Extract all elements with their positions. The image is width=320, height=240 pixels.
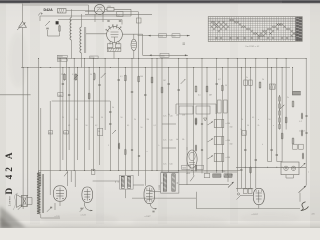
- wire: [52, 100, 111, 102]
- diode symbol: [204, 118, 207, 121]
- ground bus wire: [21, 67, 290, 69]
- resistor: [250, 168, 252, 173]
- wire: [240, 68, 242, 189]
- small labels mid-left: [48, 131, 53, 134]
- wire: [92, 59, 94, 171]
- wire: [124, 68, 126, 176]
- capacitor: [109, 111, 111, 113]
- wire: [39, 16, 41, 21]
- wire: [109, 101, 111, 170]
- resistor under tube: [107, 44, 113, 48]
- wire: [138, 59, 140, 177]
- resistor top right: [136, 18, 141, 23]
- resistor: [124, 75, 126, 80]
- svg-text:50: 50: [247, 125, 249, 127]
- AF choke coil 2: [224, 174, 232, 177]
- resistor: [161, 88, 163, 93]
- tube V3 internals: [86, 189, 88, 201]
- svg-text:Cm: Cm: [170, 164, 173, 166]
- wire: [240, 195, 253, 197]
- bottom bus wire: [39, 170, 241, 172]
- rectifier tube V7 envelope: [253, 188, 264, 204]
- svg-text:u 1W7: u 1W7: [145, 216, 152, 218]
- svg-text:Lm: Lm: [176, 115, 179, 117]
- resistor mid block 1: [195, 120, 197, 125]
- resistor: [59, 26, 61, 31]
- resistor: [64, 74, 66, 79]
- svg-text:L: L: [308, 172, 309, 174]
- svg-text:a: a: [147, 151, 148, 153]
- tube V1 grid electrodes: [106, 30, 109, 32]
- wire: [168, 68, 170, 173]
- resistor: [259, 82, 261, 87]
- wire: [216, 59, 218, 173]
- wire with arrow: [138, 35, 190, 37]
- wire: [27, 68, 29, 197]
- svg-text:15000: 15000: [58, 56, 63, 58]
- wire arc below tube V6: [150, 204, 157, 209]
- resistor: [195, 119, 197, 124]
- misc small labels: [61, 74, 289, 146]
- wire: [59, 59, 61, 171]
- wire: [186, 147, 188, 150]
- svg-text:150: 150: [230, 144, 233, 146]
- capacitor: [131, 91, 133, 93]
- wire stub: [70, 171, 72, 183]
- top feed wire: [23, 4, 89, 6]
- wire: [271, 68, 273, 162]
- paper streaks: [30, 4, 40, 224]
- svg-text:2k: 2k: [76, 119, 78, 121]
- output transformer coil: [37, 173, 41, 215]
- wire: [38, 171, 40, 173]
- wire: [124, 190, 126, 199]
- wire: [201, 59, 203, 174]
- wire: [236, 187, 253, 189]
- magic eye tube V5: [187, 150, 197, 168]
- wire: [176, 103, 216, 105]
- junction dots bottom bus: [60, 167, 283, 171]
- label box on wire: [160, 53, 169, 57]
- wire: [277, 161, 282, 163]
- svg-text:Ck: Ck: [182, 139, 184, 141]
- resistor on bus: [91, 169, 95, 174]
- wire: [71, 9, 73, 17]
- capacitor diagonal: [190, 176, 194, 182]
- svg-text:a: a: [258, 119, 259, 121]
- svg-text:u 124: u 124: [81, 215, 87, 217]
- wire: [22, 68, 24, 210]
- wire: [285, 59, 287, 130]
- wire: [227, 59, 229, 182]
- wire: [65, 59, 67, 171]
- label box on wire: [172, 34, 180, 38]
- svg-text:11500: 11500: [159, 185, 161, 190]
- capacitor: [216, 83, 218, 85]
- svg-text:50: 50: [269, 119, 271, 121]
- wire: [121, 20, 123, 25]
- grid wire: [85, 13, 152, 15]
- paper mottle: [42, 213, 118, 227]
- svg-text:1700: 1700: [58, 60, 62, 62]
- resistor diagonal: [280, 105, 284, 109]
- capacitor: [62, 83, 64, 85]
- variable capacitor arrow: [181, 79, 186, 84]
- resistor mid block 2: [195, 146, 197, 151]
- svg-text:0,1: 0,1: [154, 125, 156, 127]
- svg-text:Cm: Cm: [170, 116, 173, 118]
- resistor right column: [301, 131, 303, 135]
- svg-text:220: 220: [312, 214, 315, 216]
- capacitor: [131, 149, 133, 151]
- capacitor: [168, 83, 170, 85]
- capacitor right column: [305, 132, 307, 134]
- svg-text:Lm: Lm: [164, 116, 167, 118]
- oscillator coil L1: [70, 18, 72, 41]
- resistor box 2: [117, 12, 123, 17]
- coil hatch: [293, 91, 301, 95]
- svg-text:0,1: 0,1: [72, 74, 75, 76]
- output tube V4 envelope: [54, 186, 67, 201]
- svg-text:2k: 2k: [262, 79, 264, 81]
- svg-text:u 150: u 150: [226, 140, 231, 142]
- capacitor: [107, 20, 109, 22]
- oscillator chain resistors: [279, 97, 281, 101]
- bottom bus wire right: [236, 166, 306, 168]
- svg-text:150: 150: [230, 127, 233, 129]
- resistor right column: [302, 154, 304, 158]
- wire: [250, 68, 252, 189]
- svg-text:50: 50: [90, 74, 92, 76]
- svg-text:a: a: [273, 125, 274, 127]
- tube V7 internals: [258, 190, 260, 203]
- resistor under tube: [115, 44, 121, 48]
- wire: [133, 184, 144, 186]
- wire: [68, 68, 70, 151]
- speaker arrow: [18, 205, 23, 210]
- tiny rail labels: [62, 117, 274, 153]
- small selector symbol: [237, 193, 239, 195]
- wire: [244, 59, 246, 189]
- tube V6 internals: [148, 188, 150, 202]
- wire: [285, 175, 287, 178]
- wire: [59, 201, 61, 206]
- wire: [58, 19, 122, 21]
- wire: [267, 59, 269, 162]
- wire: [191, 168, 193, 171]
- capacitor: [244, 149, 246, 151]
- dial scale markings: [211, 19, 298, 39]
- capacitor: [119, 20, 121, 22]
- label box on bus: [57, 55, 67, 57]
- terminal boxes: [244, 80, 248, 85]
- svg-text:1500: 1500: [159, 36, 163, 38]
- wire: [73, 59, 75, 171]
- label box on bus: [90, 56, 98, 59]
- junction blob: [56, 21, 59, 24]
- L C labels column: [164, 116, 173, 166]
- wire: [88, 68, 90, 151]
- mixer tube V1 envelope: [107, 27, 123, 43]
- svg-text:5k: 5k: [112, 107, 114, 109]
- long return wire: [196, 208, 300, 210]
- capacitor: [98, 84, 100, 86]
- wire: [27, 197, 32, 199]
- bottom photo edge shading: [0, 221, 320, 228]
- capacitor right column: [305, 115, 307, 117]
- tall trimmer boxes: [218, 100, 222, 113]
- AF choke coil: [213, 174, 221, 177]
- wire: [71, 40, 73, 59]
- dial scale grid block: [208, 17, 302, 42]
- dial scale emphasis rules: [208, 19, 302, 39]
- resistor mid block 3: [195, 166, 197, 171]
- small tube V2: [131, 39, 137, 50]
- wire: [81, 21, 83, 27]
- wire: [221, 68, 223, 173]
- small boxes left of rectifier: [243, 189, 247, 194]
- capacitor: [276, 154, 278, 156]
- resistor: [138, 76, 140, 81]
- resistor boxes: [204, 173, 210, 177]
- wire: [102, 12, 104, 23]
- resistor right column: [301, 114, 303, 118]
- svg-text:0,1: 0,1: [127, 125, 129, 127]
- arrow to can 3: [208, 156, 214, 160]
- wire: [268, 161, 272, 163]
- wire stub: [74, 171, 76, 188]
- capacitor: [46, 27, 49, 29]
- svg-text:0,1: 0,1: [198, 95, 201, 97]
- capacitor: [109, 123, 111, 125]
- wire: [186, 59, 188, 185]
- resistor: [118, 144, 120, 149]
- svg-text:150: 150: [49, 132, 52, 134]
- mains switch: [299, 186, 307, 193]
- svg-text:0,2: 0,2: [95, 125, 97, 127]
- svg-text:50: 50: [141, 127, 143, 129]
- tube V4 internals: [59, 188, 61, 200]
- resistor: [292, 102, 294, 107]
- dial scale right dark end: [296, 17, 303, 41]
- tube V6 envelope (IF tube): [144, 186, 155, 204]
- wire: [40, 108, 42, 186]
- coil core line: [83, 27, 85, 53]
- svg-text:5000: 5000: [161, 55, 165, 57]
- svg-text:5000: 5000: [182, 168, 186, 170]
- label box on wire: [159, 34, 167, 38]
- handwritten squiggle: [301, 202, 309, 211]
- svg-text:0,1: 0,1: [120, 76, 123, 78]
- wire: [84, 59, 86, 171]
- svg-text:4700: 4700: [90, 57, 94, 59]
- resistor with arrow: [75, 74, 77, 79]
- wire: [93, 180, 120, 182]
- wire: [77, 68, 79, 161]
- wire: [66, 10, 95, 12]
- resistor: [93, 74, 95, 79]
- svg-text:500: 500: [173, 36, 176, 38]
- resistor: [195, 86, 197, 91]
- wire: [105, 9, 107, 11]
- IF transformer right: [161, 173, 179, 193]
- label box SP: [58, 93, 63, 97]
- svg-text:350: 350: [222, 171, 225, 173]
- top photo edge band: [0, 0, 320, 5]
- capacitor: [240, 169, 242, 171]
- wire: [86, 33, 107, 35]
- svg-text:Ck: Ck: [240, 129, 242, 131]
- bottom-left dark corner fold: [0, 206, 26, 228]
- junction dots on buses: [23, 58, 307, 68]
- volume control arrow: [45, 21, 50, 26]
- wire: [162, 147, 176, 149]
- svg-text:0,1: 0,1: [252, 117, 254, 119]
- svg-text:u 150: u 150: [226, 157, 231, 159]
- wire: [22, 28, 24, 68]
- wire: [276, 59, 278, 162]
- wire: [38, 59, 40, 177]
- resistor on bus: [197, 165, 204, 169]
- svg-text:0,1: 0,1: [68, 125, 70, 127]
- resistor: [88, 94, 90, 99]
- wire: [40, 215, 42, 219]
- wire: [195, 192, 197, 209]
- wire: [47, 30, 49, 36]
- resistor on bus: [182, 165, 190, 169]
- capacitor: [115, 181, 117, 184]
- resistor: [292, 139, 294, 144]
- variable capacitor arrow: [101, 73, 106, 78]
- svg-text:150: 150: [64, 132, 67, 134]
- wire: [156, 59, 158, 171]
- wire with arrow: [143, 54, 188, 56]
- resistor: [281, 134, 283, 139]
- cap and arrow marks: [80, 207, 82, 209]
- svg-text:Lm: Lm: [164, 164, 167, 166]
- wire: [206, 68, 208, 174]
- wire: [151, 59, 153, 171]
- svg-text:50: 50: [98, 131, 100, 133]
- box pair mid right: [242, 131, 246, 136]
- wire: [144, 68, 146, 186]
- transformer core lines: [41, 174, 43, 213]
- wire: [59, 33, 61, 37]
- wire: [193, 68, 195, 176]
- equals mark: [183, 43, 186, 44]
- wire: [62, 68, 64, 161]
- wire: [0, 94, 31, 96]
- resistor: [221, 86, 223, 91]
- boxes right-bottom: [293, 144, 298, 149]
- svg-text:50: 50: [86, 125, 88, 127]
- arrow to can 1: [208, 122, 214, 126]
- wire: [305, 59, 307, 168]
- wire: [114, 8, 131, 10]
- wire arc below tube V3: [84, 202, 92, 210]
- resistor: [125, 150, 127, 155]
- discriminator can 1: [214, 120, 224, 128]
- svg-text:Lk: Lk: [176, 139, 178, 141]
- wire: [178, 59, 180, 173]
- resistor: [285, 118, 287, 123]
- ws wave mark: [39, 13, 43, 16]
- arrow to can 2: [208, 139, 214, 143]
- svg-text:50: 50: [121, 117, 123, 119]
- svg-text:2k: 2k: [258, 125, 260, 127]
- pencil scribble: [13, 193, 18, 210]
- capacitor: [138, 155, 140, 157]
- svg-text:Lk: Lk: [168, 114, 170, 116]
- svg-text:50: 50: [101, 117, 103, 119]
- svg-text:u 1817: u 1817: [252, 214, 259, 216]
- resistor on lamp lead: [107, 8, 114, 11]
- antenna lead wire: [22, 4, 24, 22]
- capacitor: [255, 159, 257, 161]
- mains filter box: [58, 9, 67, 14]
- wire: [138, 12, 140, 59]
- tube V3 envelope: [82, 187, 93, 202]
- wire: [122, 33, 142, 35]
- svg-text:k: k: [262, 144, 263, 146]
- svg-text:Ck: Ck: [241, 119, 243, 121]
- wire: [81, 53, 83, 68]
- junction dots: [161, 183, 162, 184]
- resistor: [151, 77, 153, 82]
- capacitor: [144, 94, 146, 96]
- wire: [130, 9, 132, 16]
- capacitor: [68, 94, 70, 96]
- svg-text:Loewe: Loewe: [7, 196, 11, 207]
- wire: [281, 68, 283, 162]
- IF transformer left: [120, 175, 134, 189]
- svg-text:u 120: u 120: [55, 216, 61, 218]
- svg-text:50: 50: [62, 117, 64, 119]
- wire: [292, 68, 294, 96]
- antenna symbol: [19, 22, 27, 28]
- wire: [49, 101, 51, 195]
- tube V1 internal bars: [111, 32, 119, 37]
- cathode resistor marks: [50, 206, 52, 208]
- wire: [142, 34, 144, 55]
- wire: [133, 34, 135, 39]
- mains connector box: [281, 162, 299, 175]
- wire: [305, 167, 307, 185]
- discriminator can 2: [214, 137, 224, 145]
- svg-text:0,2: 0,2: [218, 79, 221, 81]
- wire: [113, 51, 115, 58]
- svg-text:5: 5: [108, 145, 109, 147]
- wire: [179, 184, 229, 186]
- arrow symbol: [112, 130, 116, 134]
- svg-text:D42A: D42A: [44, 8, 54, 12]
- wire: [131, 59, 133, 171]
- wire: [40, 15, 131, 17]
- wire: [299, 193, 301, 202]
- wire: [133, 51, 135, 59]
- wire: [258, 205, 260, 209]
- capacitor diagonal on bus: [64, 172, 68, 177]
- wire: [132, 197, 196, 199]
- wire: [104, 59, 106, 131]
- svg-text:Cm: Cm: [182, 115, 185, 117]
- switch arrow right: [300, 163, 306, 168]
- svg-text:100: 100: [140, 76, 143, 78]
- capacitor: [178, 89, 180, 91]
- resistor: [206, 86, 208, 91]
- wire: [88, 5, 90, 14]
- capacitor: [201, 149, 203, 151]
